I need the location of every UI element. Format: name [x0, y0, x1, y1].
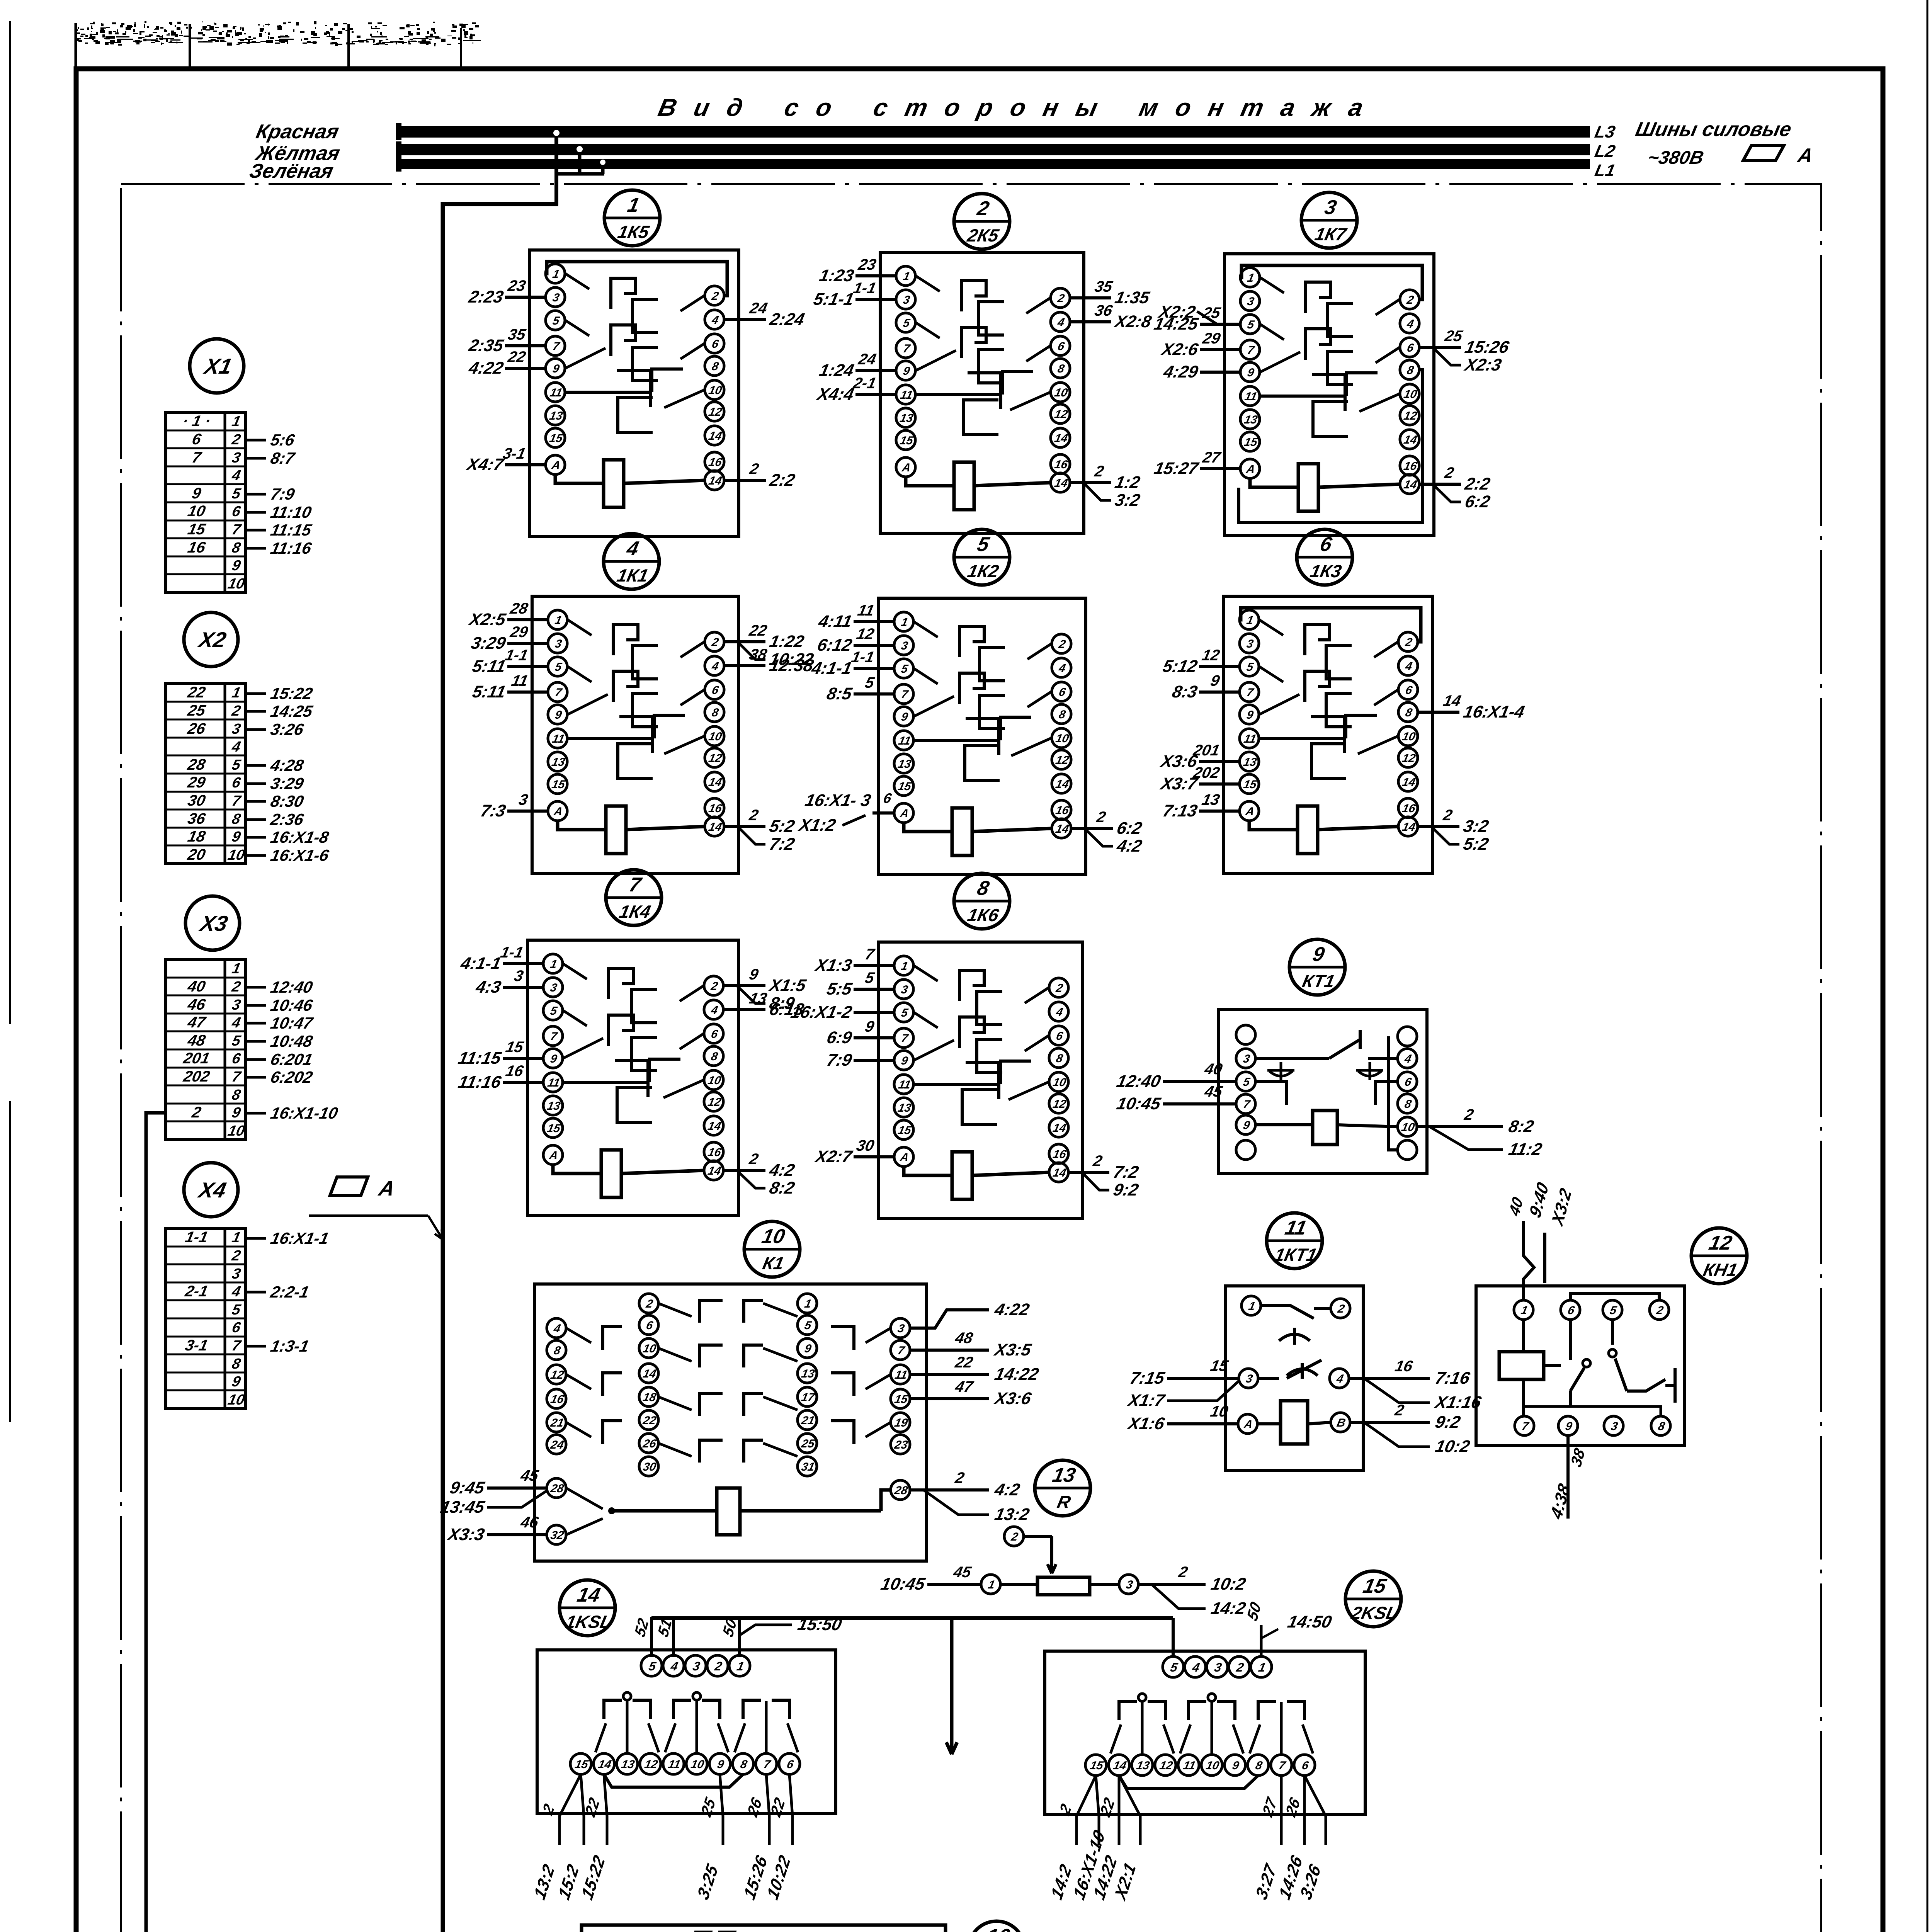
relay block 14 1KSL — [531, 1580, 844, 1903]
relay block 7 1К4 — [457, 870, 808, 1216]
svg-text:10: 10 — [1400, 1121, 1416, 1134]
svg-text:13: 13 — [897, 1102, 912, 1114]
wire label 16:X1-4 from 1К3 pin 8 — [1418, 711, 1459, 714]
panel outline dash-dot rectangle — [121, 184, 1821, 1932]
wire label X2:5 to 1К1 pin 1 — [507, 618, 548, 621]
terminal block X3 — [166, 896, 340, 1139]
svg-text:202: 202 — [1191, 764, 1221, 781]
resistor block 13 R — [879, 1460, 1247, 1618]
relay 1К7 top jumper wire — [1240, 265, 1422, 299]
2KSL top feeder wire — [1172, 1618, 1175, 1657]
svg-text:13: 13 — [620, 1758, 636, 1771]
wire label 15:26/X2:3 from 1К7 pin 6 — [1419, 346, 1461, 349]
designator circle 15/2KSL — [1345, 1571, 1401, 1627]
relay block 1 1К5 — [464, 190, 806, 536]
resistor R wiper pin 2 — [1004, 1527, 1024, 1546]
wire label 4:1-1 to 1К2 pin 5 — [854, 667, 894, 670]
К1 body — [534, 1284, 927, 1561]
svg-text:4:3: 4:3 — [474, 978, 503, 996]
svg-text:12: 12 — [643, 1758, 659, 1771]
КТ1 pins — [1236, 1025, 1255, 1044]
svg-text:X1:6: X1:6 — [1125, 1414, 1166, 1433]
relay 1К6 contacts — [914, 966, 938, 981]
wire label 7:9 to 1К6 pin 9 — [854, 1059, 894, 1062]
svg-text:13: 13 — [1135, 1759, 1151, 1772]
flag A (panel marker) near X4 — [330, 1177, 368, 1196]
wire label 14:25 to 1К7 pin 5 — [1200, 323, 1240, 326]
wire label 2:24 from 1К5 pin 4 — [724, 318, 766, 321]
svg-text:КН1: КН1 — [1701, 1260, 1739, 1279]
wire label 16:X1-2 to 1К6 pin 5 — [854, 1011, 894, 1014]
svg-text:201: 201 — [182, 1049, 211, 1066]
wire label 5:11 to 1К1 pin 7 — [507, 690, 548, 694]
svg-text:6:2: 6:2 — [1463, 492, 1492, 511]
relay 1К3 contacts — [1259, 620, 1283, 635]
fold mark ticks — [75, 23, 77, 68]
svg-text:· 1 ·: · 1 · — [181, 412, 213, 429]
svg-text:1К4: 1К4 — [617, 901, 652, 921]
relay 1К4 coil — [601, 1150, 621, 1197]
svg-text:5:11: 5:11 — [471, 682, 507, 701]
terminal block X2 — [166, 612, 331, 864]
relay block 10 К1 — [439, 1221, 1041, 1561]
wire label X1:5/8:9 from 1К4 pin 2 — [723, 984, 765, 987]
svg-text:1-1: 1-1 — [852, 279, 878, 296]
wire label 5:12 to 1К3 pin 5 — [1199, 665, 1240, 668]
svg-text:2:36: 2:36 — [269, 810, 305, 828]
svg-text:1:2: 1:2 — [1113, 473, 1142, 492]
svg-text:16:X1-4: 16:X1-4 — [1462, 702, 1526, 721]
svg-text:X1:7: X1:7 — [1125, 1391, 1167, 1410]
designator circle 14/1KSL — [560, 1580, 615, 1636]
wire label 4:11 to 1К2 pin 1 — [854, 620, 894, 623]
wire label 7:13 to 1К3 pin А — [1199, 810, 1240, 813]
svg-text:10:2: 10:2 — [1209, 1575, 1248, 1593]
svg-text:6:12: 6:12 — [816, 636, 854, 654]
svg-text:14: 14 — [1112, 1759, 1128, 1772]
svg-text:1-1: 1-1 — [499, 943, 525, 961]
А1 body — [582, 1925, 946, 1932]
К1 contact squiggles — [566, 1328, 591, 1343]
svg-text:Зелёная: Зелёная — [247, 160, 335, 182]
relay 1К7 coil wiring — [1250, 478, 1298, 487]
wire label 15:50 to 1KSL pin 1 — [740, 1625, 792, 1635]
designator circle 4/1К1 — [604, 534, 659, 589]
svg-text:14: 14 — [707, 1165, 722, 1177]
svg-text:1К1: 1К1 — [615, 565, 650, 585]
wire label X2:7 to 1К6 pin А — [854, 1155, 894, 1158]
svg-text:12: 12 — [1401, 752, 1417, 765]
svg-text:7:15: 7:15 — [1128, 1369, 1167, 1387]
svg-text:1:22: 1:22 — [768, 632, 806, 651]
svg-text:14: 14 — [1403, 478, 1418, 491]
svg-text:7:16: 7:16 — [1434, 1369, 1472, 1387]
svg-text:5:2: 5:2 — [768, 817, 796, 835]
wire label X1:6 to 1КТ1 pin А — [1167, 1422, 1238, 1425]
feeder wire long vertical down to QF1 — [441, 202, 445, 1932]
resistor R body — [1037, 1577, 1090, 1595]
svg-text:11:16: 11:16 — [457, 1073, 503, 1091]
2KSL selector contacts — [1138, 1694, 1146, 1701]
relay 1К7 pins — [1240, 268, 1260, 287]
КН1 contacts — [1569, 1320, 1572, 1360]
svg-text:8:2: 8:2 — [1507, 1117, 1536, 1136]
svg-text:8:3: 8:3 — [1170, 682, 1199, 701]
relay 1К5 top jumper wire — [545, 262, 727, 296]
relay 1К1 pins — [548, 610, 567, 629]
wire label 1:2/3:2 from 2К5 pin 14 — [1070, 481, 1111, 484]
2KSL outgoing wires and labels — [1077, 1776, 1096, 1845]
relay block 11 1КТ1 — [1125, 1213, 1483, 1471]
wire label 10:45 to R pin 1 — [927, 1583, 981, 1586]
svg-text:201: 201 — [1191, 741, 1221, 759]
svg-text:13: 13 — [551, 756, 566, 769]
svg-text:21: 21 — [549, 1417, 565, 1429]
wire label 6:13 from 1К4 pin 4 — [723, 1008, 765, 1011]
svg-text:X2:2: X2:2 — [1156, 303, 1197, 321]
К1 bottom pins and coil — [547, 1478, 566, 1498]
1KSL top feeder wires 52 51 50 — [650, 1617, 653, 1657]
svg-text:4:1-1: 4:1-1 — [810, 659, 854, 677]
resistor R pin 3 — [1119, 1575, 1138, 1594]
svg-text:14: 14 — [642, 1367, 657, 1380]
relay 1К2 coil — [952, 808, 972, 855]
svg-text:12: 12 — [1054, 754, 1070, 767]
relay 1К2 contacts — [914, 622, 938, 637]
svg-text:4:2: 4:2 — [1115, 837, 1144, 855]
svg-text:1К7: 1К7 — [1313, 224, 1349, 244]
wire label 5:1-1 to 2К5 pin 3 — [855, 298, 896, 301]
svg-text:13: 13 — [1242, 756, 1258, 769]
relay 1К1 body — [532, 596, 738, 873]
sheet scan left edge — [9, 21, 11, 1024]
relay 1К7 coil — [1298, 464, 1318, 511]
svg-text:14:50: 14:50 — [1286, 1612, 1333, 1631]
svg-text:23: 23 — [893, 1439, 909, 1451]
wire label 1:35 from 2К5 pin 2 — [1070, 296, 1111, 299]
svg-text:10: 10 — [226, 1391, 246, 1408]
svg-text:14:22: 14:22 — [993, 1365, 1041, 1383]
wire label 4:3 to 1К4 pin 3 — [503, 986, 543, 989]
svg-text:1:24: 1:24 — [818, 361, 855, 379]
relay 2К5 pins — [896, 266, 915, 286]
svg-text:4:22: 4:22 — [467, 359, 505, 377]
1КТ1 timer contacts — [1261, 1306, 1314, 1318]
svg-text:1-1: 1-1 — [503, 646, 529, 663]
svg-text:X2:3: X2:3 — [1462, 355, 1503, 374]
svg-text:10:45: 10:45 — [1115, 1094, 1163, 1113]
wire label 4:2/8:2 from 1К4 pin 14 — [723, 1169, 765, 1172]
svg-text:10: 10 — [226, 575, 246, 592]
svg-text:13: 13 — [548, 410, 564, 422]
wire labels 10:2 / 14:2 from R pin 3 — [1138, 1583, 1206, 1586]
relay 1К2 pins — [894, 612, 913, 631]
svg-text:3-1: 3-1 — [501, 444, 527, 462]
wire labels 9:2 / 10:2 from 1КТ1 pin В — [1350, 1421, 1430, 1424]
svg-text:14: 14 — [707, 821, 723, 833]
svg-text:11:15: 11:15 — [457, 1049, 503, 1067]
svg-text:10: 10 — [707, 1074, 722, 1087]
wire label 2:2 from 1К5 pin 14 — [724, 479, 766, 482]
svg-text:9:2: 9:2 — [1434, 1413, 1462, 1431]
wire label 12:38 from 1К1 pin 4 — [724, 664, 765, 667]
svg-text:X3:3: X3:3 — [445, 1525, 486, 1544]
svg-text:10: 10 — [226, 847, 246, 863]
К1 pin columns — [547, 1318, 566, 1338]
svg-text:8:2: 8:2 — [768, 1179, 796, 1197]
svg-text:5:11: 5:11 — [471, 657, 507, 675]
1KSL selector contacts — [623, 1692, 631, 1700]
svg-text:13: 13 — [546, 1100, 561, 1112]
svg-text:10: 10 — [1054, 732, 1070, 745]
relay 1К3 coil — [1298, 806, 1318, 854]
svg-text:11:10: 11:10 — [269, 503, 313, 521]
2KSL top pins 5..1 — [1163, 1656, 1184, 1677]
svg-text:3:26: 3:26 — [269, 720, 305, 738]
relay block 6 1К3 — [1158, 529, 1526, 873]
svg-text:10:45: 10:45 — [879, 1575, 927, 1593]
svg-text:13:2: 13:2 — [993, 1505, 1031, 1524]
svg-text:11:2: 11:2 — [1507, 1140, 1544, 1158]
relay block 3 1К7 — [1152, 192, 1511, 536]
flag A at bus title — [1743, 145, 1784, 161]
КТ1 timer contact left — [1255, 1057, 1329, 1060]
relay 1К4 pins — [543, 954, 563, 973]
svg-text:2:35: 2:35 — [467, 336, 506, 355]
svg-text:X2:8: X2:8 — [1112, 312, 1153, 331]
svg-text:2KSL: 2KSL — [1349, 1603, 1399, 1622]
svg-text:19: 19 — [893, 1417, 909, 1429]
wire label 12:40 to КТ1 pin 5 — [1163, 1080, 1236, 1083]
relay block 4 1К1 — [466, 534, 815, 873]
svg-text:14: 14 — [1052, 1122, 1067, 1134]
relay 2К5 coil — [954, 462, 974, 510]
svg-text:12: 12 — [707, 1096, 722, 1109]
svg-text:6:201: 6:201 — [269, 1050, 314, 1068]
svg-text:3-1: 3-1 — [184, 1336, 209, 1354]
svg-text:31: 31 — [800, 1461, 816, 1473]
svg-text:1К3: 1К3 — [1308, 561, 1343, 581]
svg-text:16:X1-2: 16:X1-2 — [789, 1003, 854, 1021]
svg-text:КТ1: КТ1 — [1301, 971, 1337, 991]
2KSL internal link wire — [1119, 1776, 1258, 1788]
svg-text:16:X1- 3: 16:X1- 3 — [803, 791, 872, 810]
svg-text:14:25: 14:25 — [269, 702, 315, 720]
svg-text:10: 10 — [707, 384, 723, 397]
svg-text:11:16: 11:16 — [269, 539, 313, 557]
svg-text:14: 14 — [1403, 434, 1418, 446]
svg-text:X1:3: X1:3 — [813, 956, 854, 975]
relay 1К3 body — [1224, 596, 1432, 873]
svg-text:Б5130 –: Б5130 – — [608, 1930, 685, 1932]
wire label 6:9 to 1К6 pin 7 — [854, 1036, 894, 1039]
svg-text:2-1: 2-1 — [851, 374, 878, 391]
КН1 top jumper — [1570, 1294, 1659, 1300]
svg-text:12:38: 12:38 — [768, 656, 815, 675]
svg-text:3:2: 3:2 — [1462, 817, 1490, 835]
wire label 5:11 to 1К1 pin 5 — [507, 665, 548, 668]
svg-text:6:9: 6:9 — [825, 1028, 854, 1047]
svg-text:16:X1-10: 16:X1-10 — [269, 1104, 340, 1122]
svg-text:15:22: 15:22 — [269, 684, 315, 702]
relay 1К7 body — [1225, 254, 1434, 536]
1КТ1 coil — [1281, 1401, 1308, 1444]
1KSL outgoing wires and labels — [560, 1774, 581, 1845]
wire label 15:27 to 1К7 pin А — [1200, 467, 1240, 470]
relay block 8 1К6 — [789, 873, 1140, 1218]
svg-text:5:1-1: 5:1-1 — [812, 290, 855, 308]
svg-text:L3: L3 — [1593, 122, 1617, 141]
relay 2К5 coil wiring — [906, 477, 954, 486]
svg-text:10: 10 — [1401, 730, 1417, 743]
svg-text:15:26: 15:26 — [1463, 338, 1511, 356]
relay block 12 КН1 — [1476, 1179, 1747, 1523]
relay block 5 1К2 — [810, 529, 1144, 874]
relay 1К5 pins — [546, 264, 565, 283]
КН1 coil — [1499, 1352, 1544, 1379]
sheet scan right edge — [1927, 0, 1929, 1932]
designator circle 12/КН1 — [1691, 1228, 1747, 1284]
svg-text:18: 18 — [642, 1391, 657, 1404]
svg-text:12: 12 — [707, 752, 723, 765]
designator circle 13/R — [1035, 1460, 1090, 1516]
relay 1К3 top jumper wire — [1239, 608, 1421, 642]
КН1 pins bottom row — [1515, 1416, 1534, 1435]
1КТ1 pins — [1242, 1296, 1261, 1315]
svg-text:10:2: 10:2 — [1434, 1437, 1472, 1456]
relay 1К6 coil wiring — [904, 1167, 952, 1175]
wire label 7:3 to 1К1 pin А — [507, 810, 548, 813]
wire label 14:22 from К1 pin 11 — [910, 1373, 989, 1376]
svg-text:X2:7: X2:7 — [813, 1147, 854, 1166]
feeder wire horizontal to left — [441, 202, 558, 206]
relay 2К5 body — [880, 252, 1084, 533]
wire label 4:1-1 to 1К4 pin 1 — [503, 962, 543, 965]
svg-text:13: 13 — [897, 758, 912, 770]
relay 1К1 contacts — [568, 620, 592, 635]
relay 1К4 contacts — [563, 964, 587, 979]
2KSL body — [1045, 1651, 1365, 1815]
svg-text:X2:5: X2:5 — [466, 610, 508, 629]
svg-text:10:47: 10:47 — [269, 1014, 315, 1032]
svg-text:13: 13 — [800, 1367, 816, 1380]
svg-text:5:5: 5:5 — [825, 980, 854, 998]
relay 1К6 body — [878, 942, 1082, 1218]
svg-text:Шины силовые: Шины силовые — [1633, 118, 1793, 141]
wire labels 16:X1-3 / X1:2 to 1К2 pin А — [872, 811, 894, 815]
terminal block X4 — [166, 1163, 330, 1408]
1KSL internal link wire — [604, 1774, 743, 1787]
wire label 5:5 to 1К6 pin 3 — [854, 988, 894, 991]
relay 1К6 coil — [952, 1152, 972, 1199]
svg-text:2:24: 2:24 — [768, 310, 806, 328]
svg-text:14: 14 — [1054, 778, 1070, 791]
svg-text:21: 21 — [800, 1414, 816, 1427]
wire label 40 9:40 X3:2 above КН1 pin 1 — [1524, 1221, 1534, 1300]
svg-text:Вид со стороны монтажа: Вид со стороны монтажа — [656, 94, 1383, 121]
relay 1К6 pins — [894, 956, 913, 975]
relay block 15 2KSL — [1045, 1571, 1401, 1904]
КТ1 timer contact right — [1368, 1057, 1398, 1060]
svg-text:74УхЛ4: 74УхЛ4 — [740, 1930, 814, 1932]
svg-text:3:2: 3:2 — [1113, 491, 1142, 509]
svg-text:12: 12 — [1403, 410, 1418, 422]
svg-text:10: 10 — [642, 1342, 657, 1355]
svg-text:32: 32 — [549, 1529, 565, 1542]
svg-text:14: 14 — [1052, 1167, 1067, 1179]
wire tap from bus L2 — [578, 149, 582, 174]
bus bar L3 (Красная) — [396, 126, 1590, 138]
svg-text:1:35: 1:35 — [1113, 288, 1152, 307]
wire label 11:16 to 1К4 pin 11 — [503, 1081, 543, 1084]
svg-text:14: 14 — [707, 1120, 722, 1133]
wire label 10:45 to КТ1 pin 7 — [1163, 1102, 1236, 1105]
wire label X3:6 from К1 pin 15 — [910, 1397, 989, 1400]
wire label 4:38 below КН1 pin 9 — [1566, 1435, 1570, 1519]
svg-text:3:29: 3:29 — [269, 774, 305, 792]
designator circle 8/1К6 — [954, 873, 1010, 929]
designator circle 11/1КТ1 — [1267, 1213, 1322, 1269]
svg-text:5:12: 5:12 — [1161, 657, 1199, 675]
svg-text:10:46: 10:46 — [269, 996, 315, 1014]
svg-text:1:3-1: 1:3-1 — [269, 1337, 311, 1355]
svg-text:1-1: 1-1 — [850, 648, 876, 665]
svg-text:14: 14 — [1053, 477, 1069, 490]
wire label 4:22 from К1 pin 3 — [910, 1310, 989, 1328]
svg-text:7:9: 7:9 — [825, 1051, 854, 1069]
svg-text:~380В: ~380В — [1646, 147, 1706, 168]
svg-text:24: 24 — [857, 350, 878, 367]
svg-text:2:2: 2:2 — [768, 471, 797, 489]
wire label 6:12 to 1К2 pin 3 — [854, 644, 894, 647]
КН1 body — [1476, 1286, 1684, 1446]
relay 1К1 coil — [606, 806, 626, 854]
wire label X3:5 from К1 pin 7 — [910, 1349, 989, 1352]
svg-text:10: 10 — [707, 730, 723, 743]
svg-text:14: 14 — [707, 474, 723, 487]
designator circle 10/К1 — [744, 1221, 800, 1277]
wire label X4:4 to 2К5 pin 11 — [855, 393, 896, 396]
svg-text:10: 10 — [1403, 388, 1418, 401]
1KSL bottom pins 15..6 — [570, 1753, 591, 1774]
svg-text:16:X1-6: 16:X1-6 — [269, 846, 331, 864]
relay 1К5 contacts — [565, 274, 589, 289]
svg-text:28: 28 — [549, 1482, 565, 1495]
КТ1 internal wiring — [1255, 1082, 1287, 1105]
wire joining taps — [555, 172, 604, 176]
КН1 pins top row — [1514, 1300, 1533, 1320]
designator circle 5/1К2 — [954, 529, 1010, 585]
svg-text:9:45: 9:45 — [448, 1478, 487, 1497]
svg-text:10: 10 — [690, 1758, 705, 1771]
terminal block X1 — [166, 339, 314, 592]
wire label 2:23 to 1К5 pin 3 — [505, 296, 546, 299]
wire label 3:29 to 1К1 pin 3 — [507, 642, 548, 645]
svg-text:11:15: 11:15 — [269, 521, 314, 539]
svg-text:13: 13 — [1243, 413, 1259, 426]
wire label X2:6 to 1К7 pin 7 — [1200, 348, 1240, 351]
svg-text:12: 12 — [1053, 408, 1069, 421]
svg-text:X2:6: X2:6 — [1159, 340, 1200, 359]
wire label X2:8 from 2К5 pin 4 — [1070, 320, 1111, 323]
wire label 1:22/10:22 from 1К1 pin 2 — [724, 640, 765, 643]
svg-text:9:2: 9:2 — [1112, 1180, 1140, 1199]
wire label 4:29 to 1К7 pin 9 — [1200, 371, 1240, 374]
wire label 5:2/7:2 from 1К1 pin 14 — [724, 825, 765, 828]
wire label X3:7 to 1К3 pin 15 — [1199, 782, 1240, 786]
wire label 4:22 to 1К5 pin 9 — [505, 367, 546, 370]
КН1 bottom jumper — [1524, 1406, 1661, 1416]
